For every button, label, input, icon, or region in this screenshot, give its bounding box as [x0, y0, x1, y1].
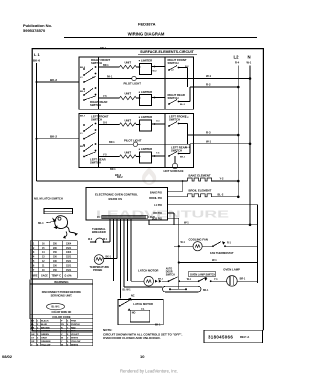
switch S1 right front (right contacts)	[168, 58, 190, 87]
part number box	[204, 330, 263, 343]
switch S3 left front (left contacts)	[80, 114, 109, 139]
wire W-1 row	[179, 262, 258, 264]
svg-text:W-1: W-1	[181, 241, 186, 244]
oven lamp switch	[189, 271, 215, 276]
svg-text:BR: BR	[31, 327, 35, 329]
EOC drop wire bundle	[110, 219, 131, 298]
svg-text:GRAY: GRAY	[41, 337, 48, 340]
wire broil to L2	[211, 196, 238, 198]
switch S3 left front (right contacts)	[168, 114, 189, 144]
svg-text:BREAKER: BREAKER	[92, 230, 106, 234]
wire BK-2 feed block 1	[37, 81, 80, 83]
svg-text:BL-W-1: BL-W-1	[123, 290, 132, 292]
svg-text:BL-2: BL-2	[218, 193, 224, 197]
svg-text:WARNING: WARNING	[54, 280, 69, 284]
door plug connector	[163, 286, 202, 292]
svg-text:BK-2: BK-2	[80, 67, 86, 69]
svg-text:PU: PU	[61, 324, 64, 326]
block 2 right divider	[164, 114, 166, 168]
svg-text:1521: 1521	[66, 270, 72, 272]
svg-text:1 DLB: 1 DLB	[148, 216, 155, 219]
svg-text:BAKE P/O: BAKE P/O	[150, 191, 162, 194]
svg-text:LATCH MOTOR: LATCH MOTOR	[133, 302, 153, 306]
svg-text:10: 10	[140, 354, 145, 359]
color code table	[30, 314, 93, 318]
svg-text:GN: GN	[31, 334, 35, 336]
svg-text:Ω ±5%: Ω ±5%	[65, 275, 72, 277]
svg-text:Rendered by LeadVenture, Inc.: Rendered by LeadVenture, Inc.	[120, 369, 178, 374]
svg-text:FED387A: FED387A	[138, 22, 156, 27]
svg-text:NO. M LATCH SWITCH: NO. M LATCH SWITCH	[34, 197, 63, 201]
svg-text:BLUE: BLUE	[41, 324, 47, 326]
wire pilot PL1 right	[136, 78, 187, 80]
svg-text:SWITCH: SWITCH	[90, 161, 101, 165]
svg-text:BAKE ELEMENT: BAKE ELEMENT	[189, 174, 211, 178]
svg-text:OVEN LAMP: OVEN LAMP	[223, 268, 240, 272]
temperature resistance table	[30, 241, 77, 278]
wire BK-2 feed block 2	[37, 138, 80, 140]
svg-text:VIOLET: VIOLET	[71, 334, 80, 336]
svg-text:SWITCH: SWITCH	[168, 61, 179, 65]
svg-text:1521: 1521	[66, 265, 72, 267]
svg-text:L2: L2	[234, 55, 240, 60]
surface switch block 1 box	[79, 57, 194, 109]
svg-text:BK-2: BK-2	[115, 173, 122, 177]
title underline	[64, 37, 257, 39]
svg-text:1304: 1304	[66, 251, 72, 254]
svg-text:W-1: W-1	[206, 140, 212, 144]
switch S4 left rear (left contacts)	[80, 143, 106, 164]
svg-text:BK-2: BK-2	[50, 78, 57, 82]
svg-text:TAN: TAN	[71, 330, 76, 333]
svg-text:PINK: PINK	[71, 321, 77, 323]
svg-text:YELLOW: YELLOW	[71, 341, 81, 343]
svg-text:BK-1: BK-1	[155, 325, 161, 327]
svg-text:BR-1: BR-1	[100, 46, 107, 50]
svg-text:AUTO: AUTO	[166, 268, 173, 271]
svg-text:W-1: W-1	[184, 221, 189, 225]
svg-text:ORANGE: ORANGE	[41, 340, 51, 343]
svg-text:W-1: W-1	[103, 239, 108, 241]
wire to oven lamp switch	[179, 280, 199, 282]
svg-text:● LIMITER: ● LIMITER	[139, 90, 153, 94]
block 1 right divider	[164, 57, 166, 109]
svg-text:BK: BK	[31, 321, 35, 323]
svg-text:PROBE: PROBE	[93, 268, 102, 272]
surface switch block 2 box	[79, 114, 194, 168]
wire DLB P/O stub	[168, 217, 179, 219]
L2 bus wire	[237, 66, 239, 199]
svg-text:DISCONNECT POWER BEFORE: DISCONNECT POWER BEFORE	[42, 290, 81, 294]
svg-text:GAGE: GAGE	[41, 274, 48, 277]
svg-text:WHITE: WHITE	[71, 338, 79, 340]
fan thermostat switch	[202, 245, 213, 247]
svg-text:BR-1: BR-1	[110, 168, 116, 171]
svg-text:R-4: R-4	[235, 61, 240, 65]
wire W-1 block2 to N	[190, 143, 250, 145]
svg-text:GY: GY	[31, 338, 35, 340]
svg-text:SWITCH: SWITCH	[91, 118, 102, 122]
svg-text:BL-2: BL-2	[180, 104, 186, 106]
svg-text:WHITE: WHITE	[71, 344, 79, 346]
svg-text:SWITCH: SWITCH	[91, 61, 102, 65]
svg-text:L1 P/O: L1 P/O	[154, 204, 162, 207]
svg-text:L 1: L 1	[34, 52, 40, 57]
wire to unit R1	[99, 66, 120, 68]
svg-text:SWITCH: SWITCH	[166, 275, 175, 277]
svg-text:COOLING FAN: COOLING FAN	[189, 237, 208, 241]
svg-text:PILOT LIGHT: PILOT LIGHT	[124, 138, 142, 142]
svg-text:O-5: O-5	[103, 121, 108, 124]
svg-text:PA-1: PA-1	[107, 75, 113, 78]
svg-text:DR P/O: DR P/O	[153, 212, 162, 215]
svg-text:LATCH MOTOR: LATCH MOTOR	[138, 268, 158, 272]
connector pin strip	[102, 215, 148, 219]
svg-text:REV: A: REV: A	[240, 335, 249, 339]
svg-text:NC: NC	[131, 294, 135, 297]
svg-text:TEMP °C: TEMP °C	[52, 275, 62, 277]
svg-text:YELLOW: YELLOW	[41, 344, 51, 346]
svg-text:GREEN: GREEN	[41, 334, 49, 336]
wire to oven lamp	[211, 280, 227, 282]
N bus wire	[249, 66, 251, 225]
wire DR P/O stub	[168, 212, 175, 214]
svg-text:SURFACE-ELEMENTS-CIRCUIT: SURFACE-ELEMENTS-CIRCUIT	[140, 50, 195, 54]
svg-text:R-3: R-3	[206, 131, 211, 135]
svg-text:5995378570: 5995378570	[23, 28, 46, 33]
switch S2 right rear (left contacts)	[80, 87, 107, 107]
svg-text:SWITCH: SWITCH	[90, 103, 101, 107]
svg-text:R-1: R-1	[227, 242, 232, 245]
svg-text:COLOR CODE: COLOR CODE	[52, 315, 70, 319]
svg-text:BLACK: BLACK	[41, 320, 49, 323]
svg-text:1521: 1521	[66, 261, 72, 263]
wire pilot PL2 right	[138, 143, 190, 145]
svg-text:W-1: W-1	[206, 74, 212, 78]
svg-text:BK-6: BK-6	[33, 59, 40, 63]
wire bake to L2	[211, 180, 238, 182]
hot surface indicator	[172, 163, 177, 168]
svg-text:● LIMITER: ● LIMITER	[139, 147, 153, 151]
svg-text:BK-5: BK-5	[80, 146, 86, 148]
wire L1 P/O rail	[168, 204, 258, 206]
watermark	[96, 167, 229, 221]
wire limiter LM3 to right contacts	[152, 123, 166, 125]
wire R-3 block2 to L2	[194, 134, 239, 136]
svg-text:08/02: 08/02	[2, 354, 13, 359]
svg-text:● LIMITER: ● LIMITER	[139, 59, 153, 63]
svg-text:WIRING DIAGRAM: WIRING DIAGRAM	[128, 32, 165, 37]
wire pilot PL1 left	[99, 78, 132, 80]
svg-text:W-1: W-1	[212, 258, 217, 262]
svg-text:SERVICING UNIT.: SERVICING UNIT.	[51, 294, 73, 298]
switch S4 left rear (right contacts)	[168, 144, 191, 159]
wire bake riser to EOC	[182, 181, 184, 192]
svg-text:BK-1: BK-1	[158, 279, 164, 281]
L1 bus wire	[36, 63, 38, 181]
svg-text:1304: 1304	[66, 242, 72, 245]
svg-text:W-1: W-1	[247, 61, 252, 65]
wire pilot PL2 left	[99, 143, 134, 145]
warning box	[30, 280, 93, 315]
svg-text:W-1: W-1	[187, 279, 192, 281]
wire W-1 block1 to N	[194, 78, 251, 80]
pilot light PL1	[132, 76, 136, 80]
svg-text:UNIT: UNIT	[125, 60, 132, 64]
svg-text:Y-2: Y-2	[220, 177, 224, 181]
svg-text:BK-3: BK-3	[80, 91, 86, 93]
svg-text:UNIT: UNIT	[125, 150, 132, 154]
svg-text:BR-1: BR-1	[103, 64, 109, 67]
svg-text:BR-1: BR-1	[240, 277, 246, 280]
svg-text:BK-4: BK-4	[38, 222, 44, 225]
svg-text:UNIT: UNIT	[125, 92, 132, 96]
wire to unit R2	[99, 97, 120, 99]
svg-text:BROIL P/O: BROIL P/O	[149, 197, 162, 200]
wire limiter LM2 to right contacts	[152, 97, 166, 99]
svg-text:● LIMITER: ● LIMITER	[139, 115, 153, 119]
wire plug bend	[124, 286, 163, 288]
svg-text:PURPLE: PURPLE	[71, 324, 80, 326]
svg-text:BK-2: BK-2	[50, 135, 57, 139]
svg-text:OVEN LAMP SWITCH: OVEN LAMP SWITCH	[190, 273, 216, 276]
svg-text:N: N	[248, 55, 251, 60]
svg-text:BROWN: BROWN	[41, 327, 50, 329]
wire to cooling fan	[174, 245, 193, 247]
svg-text:318045066: 318045066	[208, 334, 233, 339]
svg-text:WIRE: WIRE	[32, 275, 38, 277]
wire R-2 block1 to L2	[190, 86, 238, 88]
svg-text:RED: RED	[71, 327, 76, 329]
svg-text:ES300 US: ES300 US	[109, 197, 123, 201]
svg-text:UNIT: UNIT	[125, 118, 132, 122]
svg-text:DOOR: DOOR	[166, 272, 173, 274]
block 2 left divider	[98, 114, 100, 168]
block 1 left divider	[98, 57, 100, 109]
svg-text:COLOR WIRE NO: COLOR WIRE NO	[52, 311, 72, 314]
svg-text:OR: OR	[31, 341, 35, 343]
wire latch motor feed	[131, 280, 144, 282]
svg-text:BK-1: BK-1	[106, 256, 112, 258]
svg-text:BK-1: BK-1	[203, 290, 209, 292]
door latch motor box	[118, 300, 163, 325]
electronic oven control U1	[86, 188, 168, 221]
svg-text:SWITCH: SWITCH	[169, 118, 180, 122]
svg-text:PILOT LIGHT: PILOT LIGHT	[124, 81, 142, 85]
wire W-1 neutral rail	[149, 224, 258, 226]
svg-text:BK-7: BK-7	[80, 116, 86, 118]
wire limiter LM1 to right contacts	[152, 66, 166, 68]
svg-text:BROIL ELEMENT: BROIL ELEMENT	[189, 189, 212, 193]
svg-text:HOT SURFACE: HOT SURFACE	[164, 169, 184, 173]
svg-text:NO: NO	[132, 312, 136, 315]
svg-text:BK-1: BK-1	[180, 157, 186, 159]
wire limiter LM4 to right contacts	[152, 155, 166, 157]
svg-text:BL-W-1: BL-W-1	[52, 307, 61, 309]
wire motor to door switch	[162, 280, 169, 282]
svg-text:R-2: R-2	[206, 83, 211, 87]
wire broil left to EOC	[168, 196, 188, 198]
svg-text:COPPER: COPPER	[41, 331, 51, 333]
svg-text:W-2: W-2	[88, 239, 93, 241]
svg-text:1521: 1521	[66, 257, 72, 259]
svg-text:BR-1: BR-1	[109, 141, 115, 144]
wire to unit R4	[99, 156, 120, 158]
svg-text:FAN THERMOSTAT: FAN THERMOSTAT	[210, 251, 234, 255]
switch S2 right rear (right contacts)	[168, 87, 191, 106]
wire L1 feed lower (BK-2)	[37, 180, 188, 182]
svg-text:1521: 1521	[66, 248, 72, 250]
svg-text:GY: GY	[31, 331, 35, 333]
wire to unit R3	[99, 124, 120, 126]
temperature probe	[94, 255, 104, 265]
svg-text:OVEN DOOR CLOSED AND UNLOCKED.: OVEN DOOR CLOSED AND UNLOCKED.	[103, 336, 161, 340]
switch S1 right front (left contacts)	[80, 58, 110, 83]
